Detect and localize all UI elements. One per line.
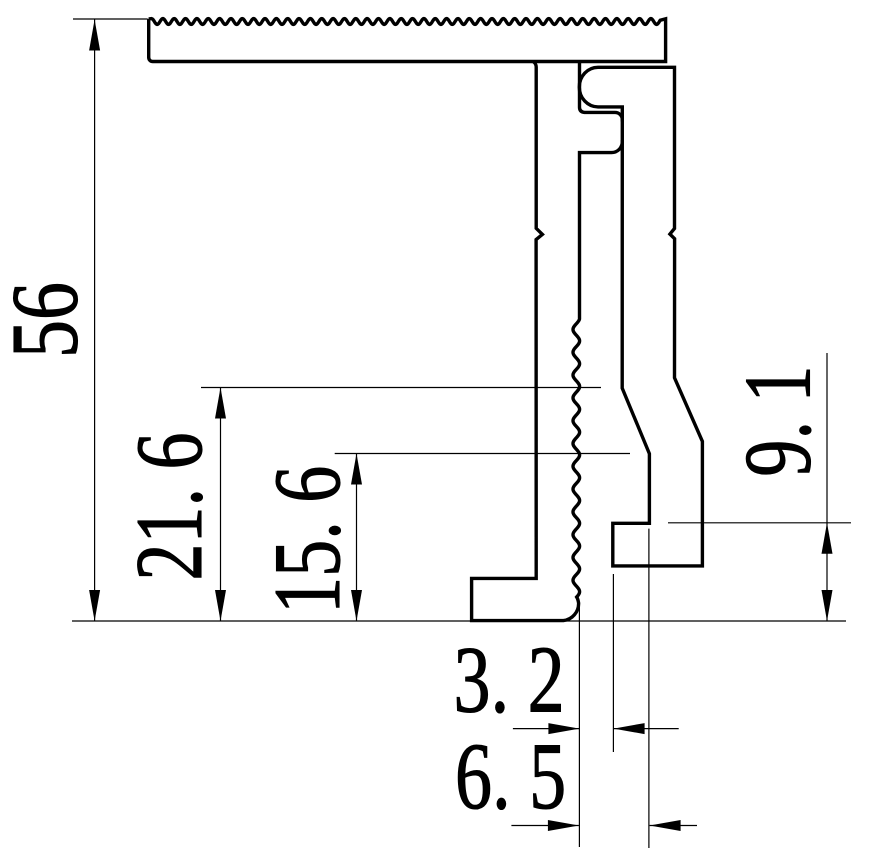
svg-text:3. 2: 3. 2 — [454, 628, 565, 733]
arrowhead 15.6 bottom — [351, 590, 362, 621]
extension line top reference for 56 — [73, 18, 148, 20]
svg-text:9. 1: 9. 1 — [726, 365, 831, 476]
profile top plate outline with serrated top — [149, 19, 666, 62]
clamp clip outline with hook head and foot — [579, 67, 702, 566]
dimension line 6.5 — [511, 825, 579, 827]
arrowhead 3.2 left — [548, 723, 579, 734]
arrowhead 6.5 left — [548, 820, 579, 831]
dimension line 3.2 — [513, 728, 580, 730]
svg-text:56: 56 — [0, 282, 97, 358]
arrowhead 6.5 right — [650, 820, 681, 831]
arrowhead 15.6 top — [351, 454, 362, 485]
dimension line 21.6 — [220, 388, 222, 622]
svg-text:6. 5: 6. 5 — [455, 724, 566, 829]
arrowhead 9.1 top — [822, 523, 833, 554]
arrowhead 56 bottom — [89, 590, 100, 621]
extension line reference for 21.6 — [201, 387, 601, 389]
svg-text:15. 6: 15. 6 — [255, 466, 360, 614]
dimension line 15.6 — [356, 454, 358, 622]
profile lip under top plate — [580, 62, 623, 122]
arrowhead 21.6 bottom — [215, 590, 226, 621]
extension line reference for 9.1 — [668, 522, 851, 524]
extension line right for 6.5 — [648, 529, 650, 848]
arrowhead 9.1 bottom — [822, 590, 833, 621]
baseline ground reference line — [72, 620, 846, 622]
extension line right for 3.2 — [612, 574, 614, 752]
dimension line 9.1 — [826, 353, 828, 621]
extension line reference for 15.6 — [335, 453, 630, 455]
arrowhead 56 top — [89, 20, 100, 51]
extension line left for 3.2 and 6.5 — [578, 604, 580, 847]
arrowhead 3.2 right — [614, 723, 645, 734]
profile web and left foot outline with knurled edge — [472, 62, 623, 621]
dimension line 56 — [94, 20, 96, 622]
svg-text:21. 6: 21. 6 — [117, 432, 222, 580]
arrowhead 21.6 top — [215, 388, 226, 419]
